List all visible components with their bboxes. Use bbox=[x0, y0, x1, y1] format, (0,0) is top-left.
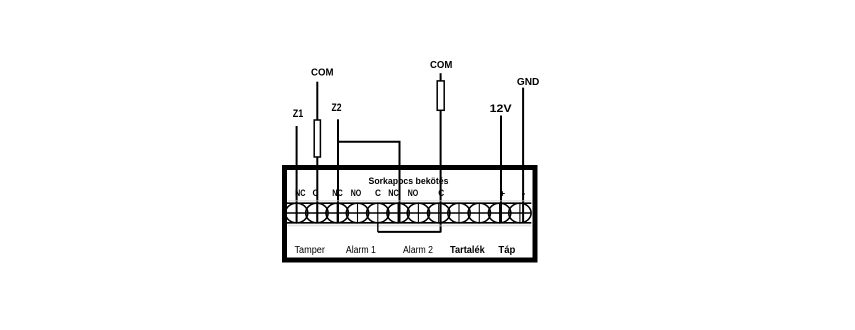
terminal screw 6 (Alarm2 NC) bbox=[387, 203, 409, 223]
svg-text:GND: GND bbox=[517, 77, 540, 88]
terminal screw 8 (Alarm2 C) bbox=[428, 203, 450, 223]
bracket left vertical (Alarm1 C down) bbox=[377, 223, 379, 232]
svg-text:NO: NO bbox=[351, 188, 362, 199]
svg-text:Z1: Z1 bbox=[293, 108, 304, 120]
svg-text:C: C bbox=[375, 188, 381, 199]
scan ghost below band bbox=[288, 225, 531, 227]
svg-text:12V: 12V bbox=[490, 103, 513, 115]
terminal screw 11 (Tap +) bbox=[488, 203, 510, 223]
wire COM right upper bbox=[440, 73, 442, 81]
wire Z2 bbox=[337, 119, 339, 223]
svg-text:Alarm 2: Alarm 2 bbox=[403, 245, 433, 256]
wire COM right lower down to bracket bbox=[440, 110, 442, 232]
svg-text:-: - bbox=[522, 188, 526, 199]
terminal screw 3 (Alarm1 NC) bbox=[326, 203, 348, 223]
wire jog Z2 to Alarm2 NC bbox=[338, 142, 400, 223]
terminal screw 2 (Tamper C) bbox=[306, 203, 328, 223]
group label Tartalek bbox=[450, 245, 485, 256]
group label Tamper bbox=[294, 245, 325, 256]
label GND bbox=[517, 77, 540, 88]
svg-text:Tartalék: Tartalék bbox=[450, 245, 485, 256]
group label Alarm 2 bbox=[403, 245, 433, 256]
pin labels row bbox=[295, 188, 526, 199]
resistor EOL left bbox=[314, 120, 320, 157]
svg-text:+: + bbox=[500, 188, 506, 199]
svg-text:C: C bbox=[438, 188, 444, 199]
terminal strip band mid line bbox=[287, 212, 531, 214]
svg-text:NO: NO bbox=[408, 188, 419, 199]
wire 12V bbox=[500, 116, 502, 223]
wire COM left upper bbox=[316, 82, 318, 121]
svg-text:NC: NC bbox=[295, 188, 306, 199]
label Z2 bbox=[332, 102, 342, 114]
svg-text:COM: COM bbox=[430, 60, 452, 71]
svg-text:Alarm 1: Alarm 1 bbox=[346, 245, 376, 256]
resistor EOL right bbox=[437, 81, 444, 110]
terminal strip band bottom line bbox=[287, 222, 531, 224]
svg-text:NC: NC bbox=[388, 188, 399, 199]
group label Tap bbox=[498, 245, 515, 256]
terminal screw 12 (Tap -) bbox=[509, 203, 531, 223]
terminal screw 9 (Tartalek a) bbox=[448, 203, 470, 223]
terminal screws: 12 circles with center lines bbox=[285, 203, 531, 223]
svg-text:COM: COM bbox=[311, 68, 334, 79]
title Sorkapocs bekotes bbox=[369, 176, 449, 187]
terminal screw 1 (Tamper NC) bbox=[285, 203, 307, 223]
terminal strip band top line bbox=[287, 202, 531, 204]
terminal screw 4 (Alarm1 NO) bbox=[346, 203, 368, 223]
svg-text:Tamper: Tamper bbox=[294, 245, 325, 256]
label COM (left) bbox=[311, 68, 334, 79]
terminal screw 7 (Alarm2 NO) bbox=[407, 203, 429, 223]
label 12V bbox=[490, 103, 513, 115]
svg-text:NC: NC bbox=[332, 188, 343, 199]
terminal block outer box bbox=[285, 168, 536, 261]
svg-text:Z2: Z2 bbox=[332, 102, 342, 114]
wire GND bbox=[522, 88, 524, 223]
terminal screw 5 (Alarm1 C) bbox=[367, 203, 389, 223]
group label Alarm 1 bbox=[346, 245, 376, 256]
wire Z1 bbox=[296, 126, 298, 223]
terminal screw 10 (Tartalek b) bbox=[468, 203, 490, 223]
svg-text:C: C bbox=[313, 188, 319, 199]
svg-text:Sorkapocs bekötés: Sorkapocs bekötés bbox=[369, 176, 449, 187]
label COM (right) bbox=[430, 60, 452, 71]
svg-text:Táp: Táp bbox=[498, 245, 515, 256]
label Z1 bbox=[293, 108, 304, 120]
bracket bottom wire connecting Alarm1 C and Alarm2 C bbox=[378, 231, 441, 233]
scan ghost above band bbox=[288, 200, 531, 202]
wire COM left lower bbox=[316, 157, 318, 223]
